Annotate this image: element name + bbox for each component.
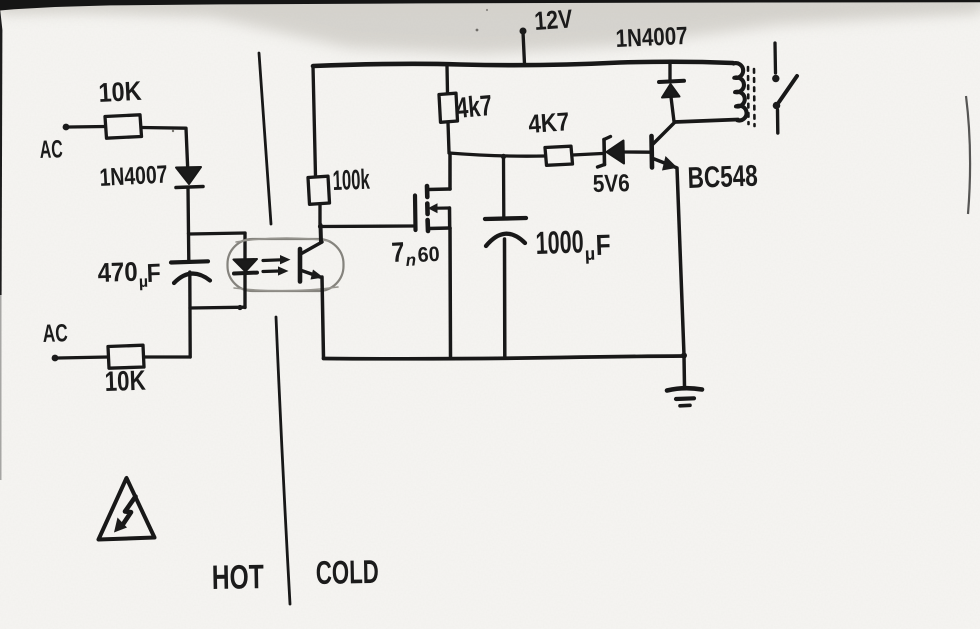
svg-text:COLD: COLD <box>315 553 379 591</box>
svg-text:470: 470 <box>97 257 138 288</box>
wire bottom of LED/cap loop <box>190 306 245 310</box>
svg-text:BC548: BC548 <box>687 160 758 195</box>
svg-text:F: F <box>146 258 161 288</box>
optocoupler U1 body <box>228 239 344 291</box>
resistor 10K (bottom) <box>108 345 144 368</box>
svg-text:4k7: 4k7 <box>455 90 494 125</box>
wire AC bottom to R 10K <box>58 357 108 358</box>
wire top of LED/cap loop <box>189 233 245 234</box>
svg-text:10K: 10K <box>98 76 143 108</box>
resistor 4k7 (vertical) <box>439 93 458 122</box>
stray specks <box>476 29 479 32</box>
junction capacitor tap <box>501 154 506 159</box>
wire opto emitter down to bottom rail <box>322 277 324 358</box>
transistor BC548 <box>652 122 678 171</box>
opto phototransistor <box>300 242 324 282</box>
svg-text:F: F <box>595 229 611 262</box>
opto light arrows <box>263 255 291 276</box>
wire top 12V rail <box>313 62 733 66</box>
node AC top terminal <box>63 124 70 131</box>
svg-text:12V: 12V <box>533 3 574 36</box>
wire R 4K7 to zener <box>573 154 603 156</box>
wire R 4k7 to drain node <box>448 123 449 153</box>
opto LED <box>234 259 258 308</box>
relay switch contact <box>772 43 797 133</box>
svg-text:100k: 100k <box>332 164 370 196</box>
wire left edge of box <box>313 66 316 176</box>
capacitor 470uF <box>171 234 210 358</box>
diode 1N4007 (relay) <box>659 64 684 122</box>
svg-text:HOT: HOT <box>211 558 264 597</box>
capacitor 1000uF <box>485 157 526 357</box>
wire rail to R 4k7 <box>445 66 449 93</box>
svg-text:4K7: 4K7 <box>527 106 570 139</box>
wire R 10K to cap node <box>144 355 190 358</box>
wire emitter down <box>677 168 684 355</box>
junction gate node <box>318 224 323 229</box>
wire AC top to R 10K <box>69 125 105 129</box>
resistor 10K (top) <box>105 115 142 138</box>
scan dark left edge <box>0 8 2 295</box>
wire coil bottom / collector row <box>675 120 739 123</box>
resistor 4K7 (horizontal) <box>545 146 573 165</box>
ground <box>667 356 702 406</box>
svg-text:1N4007: 1N4007 <box>99 160 168 192</box>
scan curl right edge <box>966 96 970 214</box>
svg-text:AC: AC <box>39 135 63 164</box>
svg-text:10K: 10K <box>104 365 146 397</box>
svg-text:60: 60 <box>417 243 440 267</box>
relay core dashed lines <box>747 67 750 124</box>
svg-text:n: n <box>405 250 416 270</box>
wire R 10K to diode <box>142 128 188 167</box>
wire mid node row <box>449 153 545 156</box>
wire bottom rail <box>324 356 685 359</box>
wire gate node to MOSFET gate <box>320 224 413 228</box>
wire 100k to gate node <box>318 205 321 227</box>
high voltage warning triangle <box>99 478 155 540</box>
svg-text:1000: 1000 <box>535 223 584 261</box>
svg-text:AC: AC <box>42 319 68 348</box>
isolation divider line (lower) <box>276 317 290 604</box>
MOSFET Q1 7n60 <box>415 153 451 357</box>
node AC bottom terminal <box>52 355 59 362</box>
node 12V <box>523 32 525 64</box>
junction LED cathode / bottom wire <box>237 305 242 310</box>
diode 1N4007 (left) <box>176 167 203 234</box>
svg-text:5V6: 5V6 <box>592 170 630 198</box>
svg-text:7: 7 <box>391 236 406 268</box>
junction emitter / bottom rail <box>681 353 687 359</box>
wire opto collector up to gate node <box>319 225 324 242</box>
svg-text:µ: µ <box>584 244 595 264</box>
resistor 100k <box>308 176 330 204</box>
scan shading band along top <box>0 1 980 23</box>
isolation divider line (upper) <box>259 53 271 224</box>
zener diode 5V6 <box>598 137 651 168</box>
wire LED anode lead <box>243 233 246 259</box>
svg-text:1N4007: 1N4007 <box>615 22 688 53</box>
scan black strip top edge <box>0 0 980 11</box>
relay coil L1 <box>734 63 747 120</box>
